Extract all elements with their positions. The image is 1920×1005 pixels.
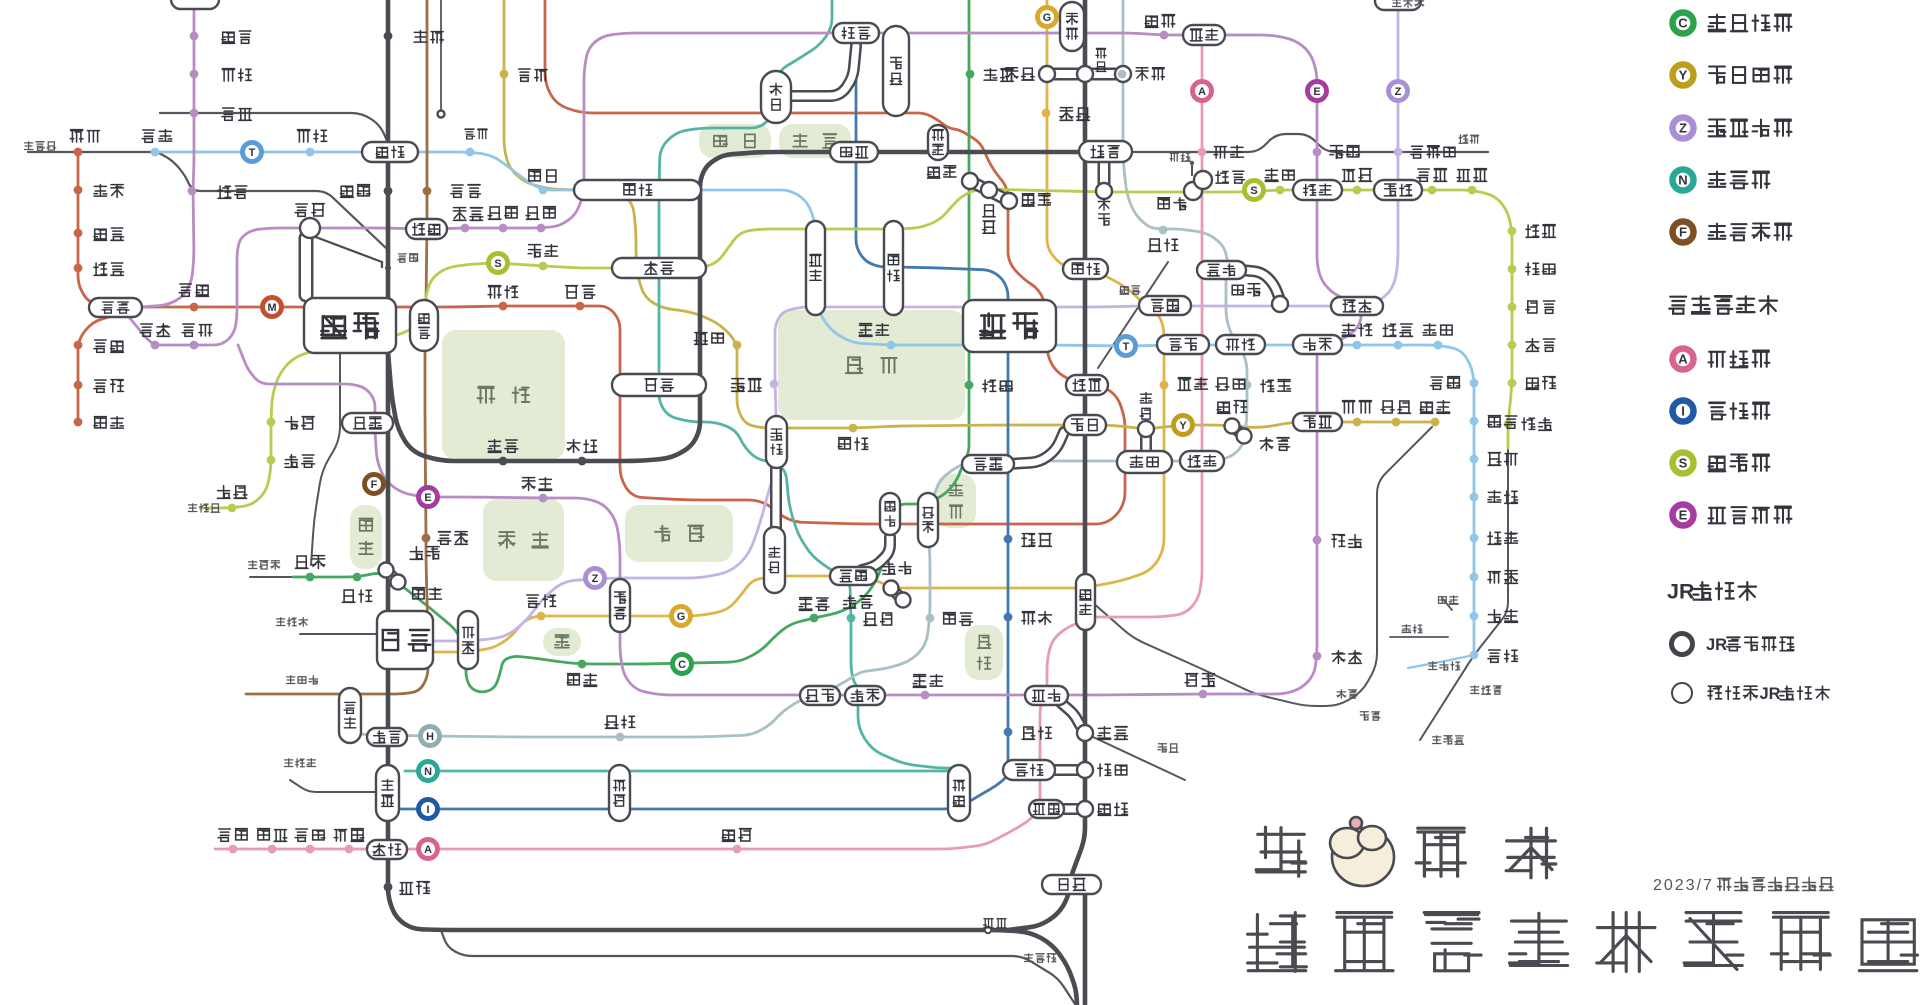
label 至二子 bbox=[276, 618, 285, 626]
legend other JR circle bbox=[1672, 683, 1692, 703]
label 篠崎 bbox=[1526, 378, 1539, 389]
svg-text:S: S bbox=[1250, 185, 1257, 197]
svg-text:N: N bbox=[1678, 173, 1687, 188]
shinjuku akebonobashi bbox=[539, 262, 548, 271]
connector bakuro-higashinihombashi bbox=[1193, 180, 1203, 191]
ginza kyobashi bbox=[1160, 381, 1169, 390]
connector nishiguchi-shinjuku bbox=[299, 238, 314, 295]
label 外苑 bbox=[527, 595, 539, 607]
label 曙橋 bbox=[528, 245, 540, 258]
chiyoda bbox=[293, 0, 969, 692]
legend A 浅草線 bbox=[1673, 349, 1694, 370]
svg-text:E: E bbox=[1313, 86, 1320, 98]
label 至蘇我 bbox=[1432, 736, 1441, 744]
tozai branch tsudanuma bbox=[1408, 655, 1474, 668]
shimbashi 新橋 bbox=[1076, 574, 1095, 630]
shirokane-takanawa 白高 bbox=[948, 765, 970, 821]
jr shin-okubo bbox=[384, 187, 393, 196]
JR chuo west (mitaka) bbox=[28, 151, 160, 153]
line logo F bbox=[365, 475, 384, 494]
oedo ryogoku bbox=[1313, 148, 1322, 157]
label 代上 bbox=[295, 556, 308, 568]
label 塩浜 bbox=[1439, 597, 1447, 604]
station circle waseda tram terminal bbox=[438, 111, 445, 118]
tozai urayasu bbox=[1470, 455, 1479, 464]
oedo main ring bbox=[128, 33, 1361, 695]
yoyogi 代々 bbox=[342, 413, 393, 433]
label 至八王 bbox=[188, 504, 197, 512]
station circle hamamatsucho 浜松 bbox=[1077, 725, 1093, 741]
label 新江 bbox=[222, 32, 235, 43]
label 都庁 bbox=[182, 324, 194, 336]
label 千谷 bbox=[488, 440, 501, 453]
label 半蔵 bbox=[732, 379, 745, 392]
tozai bbox=[160, 152, 1474, 655]
oedo higashi-nakano bbox=[188, 187, 197, 196]
line logo A bbox=[1193, 82, 1212, 101]
label 展示 bbox=[1337, 690, 1346, 699]
label 岩本 bbox=[1098, 199, 1109, 211]
shirokanedai 白台 bbox=[609, 765, 630, 821]
label 八幡 bbox=[1522, 418, 1535, 430]
label 新久 bbox=[341, 186, 354, 197]
svg-text:Y: Y bbox=[1679, 68, 1688, 83]
label 至三崎 bbox=[1024, 954, 1033, 962]
station circle suitengumae 水天 bbox=[1272, 296, 1288, 312]
line logo T bbox=[1117, 337, 1136, 356]
label 新富 bbox=[1217, 402, 1230, 413]
line logo S bbox=[489, 254, 508, 273]
connector kokkai-tameike link bbox=[862, 537, 890, 570]
line logo Z bbox=[586, 569, 605, 588]
oedo wakamatsu-kawada bbox=[461, 224, 470, 233]
tozai minami-gyotoku bbox=[1470, 493, 1479, 502]
label 勝ど bbox=[1332, 535, 1345, 547]
label 御苑 bbox=[488, 286, 501, 298]
connector ningyocho-suitengu bbox=[1240, 270, 1280, 300]
label 瑞江 bbox=[1526, 339, 1539, 352]
label 御徒 bbox=[1096, 48, 1106, 58]
connector shintomicho-tsukiji pair bbox=[1232, 426, 1244, 436]
tozai waseda bbox=[466, 148, 475, 157]
tokyo 東京 bbox=[1066, 375, 1108, 395]
label 芝園 bbox=[1022, 727, 1035, 739]
marunouchi nakano-fujimicho bbox=[74, 381, 83, 390]
label 四三 bbox=[566, 286, 578, 298]
shinjuku shinozaki bbox=[1508, 379, 1517, 388]
svg-text:Z: Z bbox=[1679, 121, 1687, 136]
shinjuku-line bbox=[200, 189, 1512, 508]
oedo ushigome-kagurazaka bbox=[537, 224, 546, 233]
kasumigaseki 霞関 bbox=[918, 493, 938, 547]
svg-text:A: A bbox=[1198, 86, 1206, 98]
odakyu keio from shinjuku bbox=[311, 352, 340, 565]
namboku bbox=[405, 0, 956, 771]
label 浅草 bbox=[1170, 153, 1178, 161]
fukutoshin nishi-waseda bbox=[423, 187, 432, 196]
tozai nishi-funabashi bbox=[1470, 651, 1479, 660]
connector harajuku pair bbox=[386, 570, 398, 582]
label 小川 bbox=[983, 205, 995, 217]
oedo tsukijishijo bbox=[1313, 652, 1322, 661]
line logo G bbox=[672, 607, 691, 626]
connector mita-tamachi bbox=[1046, 764, 1082, 776]
park imperial-palace 皇居 bbox=[778, 310, 965, 420]
monzen-nakacho 門仲 bbox=[1293, 335, 1342, 354]
tozai nakano bbox=[151, 148, 160, 157]
label 田町 bbox=[1098, 764, 1111, 776]
station circle toranomon-hills 虎ヒ bbox=[896, 593, 911, 608]
label 江戸 bbox=[519, 69, 530, 81]
park hibiya-park 野音 bbox=[936, 474, 976, 528]
label 東島 bbox=[1526, 225, 1539, 237]
label 西早 bbox=[451, 185, 463, 197]
aoyama-itchome 青山 bbox=[610, 579, 630, 632]
label 北参 bbox=[438, 532, 451, 545]
jr sendagaya bbox=[499, 457, 508, 466]
oedo nishi-shinjuku-gochome bbox=[151, 341, 160, 350]
label 有明 bbox=[1360, 712, 1368, 721]
label 葛西 bbox=[1488, 416, 1501, 427]
label 末広 bbox=[1060, 108, 1073, 121]
ginza bbox=[434, 0, 1164, 652]
label 南阿 bbox=[94, 185, 107, 196]
JR shinagawa south bbox=[1083, 893, 1088, 1004]
shinjuku higashi-ojima bbox=[1508, 227, 1517, 236]
yurakucho edogawabashi bbox=[500, 70, 509, 79]
label 幡谷 bbox=[285, 455, 298, 468]
label 宝町 bbox=[1216, 378, 1229, 390]
svg-text:JR: JR bbox=[1760, 685, 1781, 703]
title logo (onsen bun) bbox=[1330, 817, 1394, 886]
station circle okachimachi 御徒 bbox=[1077, 66, 1093, 82]
oedo akabanebashi bbox=[921, 691, 930, 700]
label 新木 bbox=[1420, 402, 1433, 413]
line logo Y bbox=[1174, 416, 1193, 435]
svg-text:A: A bbox=[1678, 352, 1688, 367]
svg-text:H: H bbox=[426, 731, 434, 743]
line logo H bbox=[421, 727, 440, 746]
shinjuku nishi-ojima bbox=[1428, 186, 1437, 195]
svg-text:S: S bbox=[1679, 456, 1688, 471]
marunouchi yotsuya-sanchome bbox=[576, 302, 585, 311]
legend E 大江戸線 bbox=[1673, 505, 1694, 526]
line logo E bbox=[419, 488, 438, 507]
label 代園 bbox=[342, 590, 355, 602]
kokkai-gijidomae 国会 bbox=[880, 493, 900, 535]
label 湯島 bbox=[984, 69, 997, 80]
label 至東葉 bbox=[1470, 686, 1479, 694]
mitsukoshimae 三越 bbox=[1139, 296, 1191, 315]
SHIBUYA 渋谷 bbox=[377, 611, 433, 669]
label 亀戸 bbox=[1459, 135, 1468, 143]
marunouchi nishi-shinjuku bbox=[190, 303, 199, 312]
marunouchi main bbox=[78, 0, 1125, 524]
oedo tochomae bbox=[190, 341, 199, 350]
kanda 神田 bbox=[1063, 259, 1108, 279]
label 至二俣 bbox=[284, 759, 293, 767]
tameike-sanno 溜池 bbox=[830, 567, 877, 585]
svg-text:JR: JR bbox=[1706, 636, 1727, 654]
label 戸越 bbox=[334, 830, 346, 841]
label 南船 bbox=[1402, 625, 1411, 633]
label 木場 bbox=[1342, 324, 1355, 337]
marunouchi shin-koenji bbox=[74, 229, 83, 238]
main title 東京地下鉄路線図 bbox=[1248, 913, 1307, 972]
label 乃木 bbox=[567, 674, 579, 685]
legend F 副都心線 bbox=[1673, 222, 1694, 243]
JR chuo nakano-shinjuku bbox=[157, 152, 387, 249]
kiyosumi-shirakawa 清澄 bbox=[1331, 297, 1383, 315]
svg-text:M: M bbox=[267, 302, 276, 314]
akasaka-mitsuke 見附 bbox=[764, 527, 785, 593]
label 八丁 bbox=[1261, 380, 1274, 392]
shinjuku mizue bbox=[1508, 341, 1517, 350]
station circle ginza-itchome 銀一 bbox=[1138, 421, 1154, 437]
svg-text:T: T bbox=[1123, 341, 1130, 353]
label 西口 bbox=[295, 204, 307, 216]
chiyoda yushima bbox=[966, 70, 975, 79]
label 高ケ bbox=[1098, 804, 1111, 815]
yotsuya 四谷 bbox=[612, 374, 706, 396]
line logo S bbox=[1245, 181, 1264, 200]
park shiba-park 芝園 bbox=[965, 625, 1003, 680]
marunouchi minami-asagaya bbox=[74, 186, 83, 195]
label 大崎 bbox=[400, 883, 413, 895]
oedo shiodome bbox=[1199, 690, 1208, 699]
label 至海老 bbox=[286, 676, 295, 684]
legend I 三田線 bbox=[1673, 401, 1694, 422]
tozai gyotoku bbox=[1470, 534, 1479, 543]
tokyu stub meguro bbox=[290, 780, 377, 792]
line logo C bbox=[673, 655, 692, 674]
svg-text:JR: JR bbox=[1667, 580, 1695, 604]
label 浜町 bbox=[1265, 169, 1278, 182]
kayabacho 茅場 bbox=[1216, 335, 1265, 354]
JR sobu rapid shin-nihombashi bbox=[1098, 262, 1168, 368]
keio inokashira stub shibuya bbox=[300, 633, 378, 635]
shinjuku-sanchome 新三 bbox=[410, 300, 438, 351]
connector shin-ochanomizu chain bbox=[970, 181, 1009, 201]
label 虎ヒ bbox=[844, 596, 856, 608]
label 浅橋 bbox=[1214, 147, 1226, 158]
station circle meiji-jingumae 神宮 bbox=[391, 575, 406, 590]
station circle tsukiji 築地 bbox=[1237, 429, 1252, 444]
label 西島 bbox=[1417, 169, 1429, 181]
station circle harajuku 原宿 bbox=[379, 563, 394, 578]
label 西馬 bbox=[218, 829, 230, 841]
label 落合 bbox=[298, 130, 310, 142]
label 牛柳 bbox=[488, 207, 501, 219]
line logo T bbox=[243, 143, 262, 162]
marunouchi ogikubo bbox=[74, 148, 83, 157]
tozai kagurazaka bbox=[539, 186, 548, 195]
legend S 新宿線 bbox=[1673, 453, 1694, 474]
label 妙典 bbox=[1488, 572, 1500, 583]
label 西武 bbox=[398, 254, 406, 262]
oedo kokuritsu-kyogijo bbox=[539, 494, 548, 503]
station circle shinjuku-nishiguchi 西口 bbox=[300, 218, 320, 238]
JR yamanote west bbox=[388, 0, 1077, 1004]
toden waseda stub bbox=[440, 0, 442, 112]
tozai minami-sunamachi bbox=[1434, 341, 1443, 350]
legend header 都営地下鉄 bbox=[1669, 297, 1686, 314]
station circle shintomicho 新富 bbox=[1225, 419, 1240, 434]
title yubaba-shiki 湯婆式 bbox=[1256, 827, 1306, 876]
oedo nakai bbox=[190, 109, 199, 118]
label 築地 bbox=[1260, 438, 1273, 451]
JR chuo-sobu bbox=[388, 152, 1080, 461]
label 大島 bbox=[1457, 170, 1470, 182]
station circle higashi-nihombashi 東日 bbox=[1194, 171, 1212, 189]
label 新茶 bbox=[928, 167, 940, 178]
yurakucho toyosu bbox=[1353, 418, 1362, 427]
svg-text:Y: Y bbox=[1179, 420, 1187, 432]
label 馬込 bbox=[258, 829, 270, 840]
label 東円 bbox=[94, 263, 107, 275]
ebisu 恵比 bbox=[367, 728, 407, 746]
label 笹塚 bbox=[217, 486, 230, 499]
shinjuku sasazuka bbox=[228, 504, 237, 513]
station circle ogawamachi 小川 bbox=[981, 182, 997, 198]
label 目白 bbox=[414, 31, 427, 42]
svg-text:I: I bbox=[1681, 404, 1685, 419]
label 銀一 bbox=[1140, 393, 1152, 403]
line logo Z bbox=[1389, 82, 1408, 101]
gotanda 五反 bbox=[367, 840, 407, 859]
connector ueno-hirokoji chain bbox=[1047, 68, 1123, 81]
higashi-shinjuku 東新 bbox=[406, 219, 447, 239]
label 神宮 bbox=[412, 588, 424, 599]
hibiya hiroo bbox=[616, 733, 625, 742]
azabu-juban 麻布 bbox=[845, 686, 885, 705]
station circle shin-ochanomizu 新茶 bbox=[962, 173, 978, 189]
line logo E bbox=[1308, 82, 1327, 101]
connector toranomon pair bbox=[891, 588, 903, 600]
label 高台 bbox=[722, 830, 735, 841]
OTEMACHI 大手 bbox=[963, 300, 1056, 352]
label 水天 bbox=[1232, 285, 1244, 294]
label 汐留 bbox=[1185, 674, 1197, 686]
station circle toranomon 虎門 bbox=[884, 581, 899, 596]
label 中井 bbox=[222, 108, 234, 120]
station circle tamachi 田町 bbox=[1077, 762, 1093, 778]
line logo I bbox=[419, 800, 438, 819]
marunouchi branch bbox=[78, 315, 115, 424]
label 広尾 bbox=[605, 716, 618, 728]
label 行徳 bbox=[1488, 532, 1501, 544]
label 虎門 bbox=[883, 562, 895, 574]
kuramae 蔵前 bbox=[1183, 25, 1225, 45]
label 南行 bbox=[1488, 491, 1501, 502]
oedo north bbox=[140, 10, 194, 307]
JR yamanote to shinagawa bbox=[1008, 0, 1085, 930]
nihombashi 日本 bbox=[1157, 335, 1209, 354]
shinjuku hatagaya bbox=[267, 456, 276, 465]
label 内幸 bbox=[1022, 534, 1035, 547]
label 六一 bbox=[864, 613, 877, 625]
naka-meguro 中目 bbox=[339, 688, 361, 743]
label 大井 bbox=[984, 919, 994, 928]
asakusa takaracho bbox=[1198, 379, 1207, 388]
label 荻窪 bbox=[70, 130, 83, 142]
marunouchi honancho bbox=[74, 418, 83, 427]
chiyoda yoyogi-uehara bbox=[306, 573, 315, 582]
suidobashi 水道 bbox=[830, 142, 878, 162]
yurakucho sakuradamon bbox=[849, 424, 858, 433]
omotesando 表参 bbox=[458, 611, 478, 669]
label 浜松 bbox=[1098, 727, 1111, 740]
legend N 南北線 bbox=[1673, 170, 1694, 191]
label 信濃 bbox=[567, 440, 580, 453]
asakusa asakusabashi bbox=[1198, 148, 1207, 157]
yurakucho kojimachi bbox=[733, 341, 742, 350]
svg-text:Z: Z bbox=[1395, 86, 1402, 98]
mita bbox=[388, 26, 1008, 809]
hongo-sanchome 本郷 bbox=[883, 26, 909, 116]
station circle takanawa-gw 高ケ bbox=[1077, 801, 1093, 817]
label 神谷 bbox=[943, 613, 955, 624]
hibiya 日々 bbox=[962, 455, 1014, 473]
label 豊洲 bbox=[1343, 401, 1355, 413]
label 西五 bbox=[140, 324, 152, 336]
marunouchi higashi-koenji bbox=[74, 264, 83, 273]
label 築市 bbox=[1332, 651, 1345, 664]
label 仲御 bbox=[1136, 68, 1148, 80]
keisei stub nishifuna bbox=[1390, 636, 1448, 638]
nerima 練馬 bbox=[171, 0, 219, 9]
asakusa nishi-magome bbox=[229, 845, 238, 854]
label 中野 bbox=[142, 130, 154, 142]
line logo N bbox=[419, 762, 438, 781]
tozai nishi-kasai bbox=[1470, 379, 1479, 388]
svg-text:E: E bbox=[424, 492, 431, 504]
park meiji-jingu 神宮 bbox=[350, 505, 382, 569]
connector daimon-hamamatsucho bbox=[1060, 702, 1080, 725]
jr asakusabashi tick bbox=[1191, 163, 1193, 176]
marunouchi shinjuku-gyoemmae bbox=[499, 302, 508, 311]
label 錦糸町 bbox=[1411, 146, 1423, 158]
chiyoda nogizaka bbox=[578, 660, 587, 669]
asakusa nakanobu bbox=[306, 845, 315, 854]
mita onarimon bbox=[1004, 613, 1013, 622]
svg-text:E: E bbox=[1679, 508, 1688, 523]
ichigaya 市谷 bbox=[612, 258, 706, 278]
label 馬横 bbox=[1158, 198, 1170, 209]
label 新御 bbox=[1145, 16, 1158, 27]
svg-text:A: A bbox=[424, 844, 432, 856]
shiohama tick bbox=[1442, 598, 1452, 610]
svg-text:Z: Z bbox=[592, 573, 599, 585]
label 原宿 bbox=[410, 547, 423, 560]
park aoyama-cemetery 墓 bbox=[543, 628, 581, 656]
tozai ochiai bbox=[306, 148, 315, 157]
oedo kachidoki bbox=[1313, 536, 1322, 545]
connector korakuen-kasuga bbox=[788, 46, 856, 96]
asakusa magome bbox=[268, 845, 277, 854]
chiyoda yoyogi-koen bbox=[353, 573, 362, 582]
mita 三田 bbox=[1003, 760, 1055, 780]
label 至押上 bbox=[1392, 0, 1401, 7]
svg-text:I: I bbox=[426, 804, 429, 816]
svg-text:S: S bbox=[494, 258, 501, 270]
station circle bakuro-yokoyama 馬横 bbox=[1184, 182, 1202, 200]
seibu-shinjuku terminal tick bbox=[385, 265, 391, 271]
chiyoda akasaka bbox=[810, 614, 819, 623]
label 麹町 bbox=[695, 333, 708, 345]
sengakuji 泉岳 bbox=[1029, 800, 1064, 818]
label 西葛 bbox=[1431, 377, 1443, 389]
